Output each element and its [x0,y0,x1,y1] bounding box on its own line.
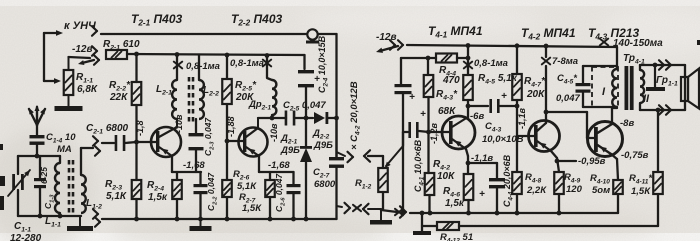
svg-text:12-280: 12-280 [10,233,42,241]
svg-text:6800: 6800 [314,179,336,190]
break x on supply rail right [600,39,608,46]
svg-text:0,047: 0,047 [556,93,580,104]
svg-text:-1,68: -1,68 [183,160,205,171]
arrow -12V pointing left [82,60,94,63]
tank bottom wire [18,215,81,217]
svg-text:0,8-1ма: 0,8-1ма [186,61,220,72]
speaker loop top wire [639,65,641,70]
diode D2-1 D9B [305,118,307,147]
arrow to volume pot R1-1 [44,80,56,82]
wire base T2-1 [137,141,157,143]
core dashed L1 [68,160,71,214]
pot wiper arrow [386,146,403,166]
collector T4-3 to transformer [611,108,613,124]
ground at tank [79,216,81,226]
resistor R2-6 5.1K [226,141,228,180]
break x 0.8-1mA T4-1 [464,62,472,69]
resistor R4-7 20K [515,43,520,48]
potentiometer R1-1 6.8K [68,57,70,70]
svg-text:6,8К: 6,8К [77,84,98,95]
resistor R2-7 1.5K [269,172,271,180]
resistor R2-1 610 [106,50,127,59]
diode D2-2 D9B [314,112,325,124]
svg-text:-1,68: -1,68 [268,160,290,171]
svg-text:-0,75в: -0,75в [621,150,649,161]
capacitor C2-5 0.047 [285,111,288,126]
node on rail R2-5 [225,53,230,58]
inductor L2-2 [198,55,200,81]
wire base T2-2 [227,140,243,142]
wire vertical from UNCh arrow [43,33,45,81]
svg-text:0,8-1ма: 0,8-1ма [230,58,264,69]
svg-text:+: + [409,92,415,103]
wire L1-2 top to C2-1 break [80,148,82,175]
svg-text:-1,8: -1,8 [135,120,145,136]
break chevrons bottom left of right half [368,208,381,210]
node on rail Dr2-1 [265,53,270,58]
resistor R4-10 5 ohm [613,180,623,194]
wire collector T2-1 to L2-1 [176,118,178,120]
svg-text:-8в: -8в [620,118,634,129]
wire R4-7 to base T4-2 [516,100,518,136]
svg-text:7-8ма: 7-8ма [552,56,578,67]
wire C2-5 to detector node [295,117,313,119]
svg-text:-10в: -10в [174,114,184,133]
resistor R4-2 10K [427,132,429,173]
arrow -12V right half [380,46,398,51]
break chevrons -12V right [390,40,395,45]
capacitor C4-2 20x12V [400,58,402,84]
pot bottom to ground [382,192,384,209]
collector node wire to detector [258,117,286,119]
output chevrons to right half lower [337,206,343,207]
svg-text:+: + [501,91,507,102]
resistor R2-2 22K [135,54,137,82]
inductor L2-1 [176,55,178,81]
capacitor C2-2 0.047 [199,172,201,184]
svg-text:МА: МА [57,144,72,155]
transformer secondary winding [640,70,644,103]
wire C4-5 across primary bottom [583,106,617,108]
svg-text:-12в: -12в [72,44,93,55]
collector column T4-1 [467,100,469,117]
wire R2-2 to base node [135,105,137,142]
chevrons on speaker bottom wire [659,105,664,110]
speaker loop right side [684,65,686,110]
node on rail L2-1 [175,52,180,57]
transistor T4-1 [442,116,475,149]
break chevrons from L1-2 to C2-1 [93,136,98,141]
shield dashed box [592,67,618,107]
bottom rail right half [410,212,618,214]
transistor T2-1 [151,127,181,157]
tank top wire [18,155,60,157]
wiper wire up [402,132,404,146]
resistor R2-3 5.1K [135,142,137,180]
wire R2-5 to base node T2-2 [226,104,228,141]
svg-text:0,8-1ма: 0,8-1ма [474,58,508,69]
svg-text:10К: 10К [437,171,455,182]
transistor T4-2 [529,121,560,152]
svg-text:120: 120 [566,184,583,195]
svg-text:22К: 22К [109,92,128,103]
resistor R4-11 1.5K [657,110,659,172]
capacitor C4-3 10x10V [489,99,492,113]
resistor R4-4 470 [436,54,457,63]
input break chevron from left half [364,150,370,156]
resistor R4-5 5.1K [463,75,473,100]
capacitor C2-1 6800 [115,135,118,151]
wire to volume pot [368,155,383,157]
transistor T2-2 [239,128,268,157]
svg-text:1,5К: 1,5К [631,186,651,197]
wire jack to right edge [318,33,337,35]
svg-text:+: + [420,109,426,120]
wire base T4-2 [517,135,534,137]
capacitor C2-6 0.047 [292,172,294,184]
volume potentiometer R1-2 [378,168,388,192]
antenna [29,109,37,125]
speaker Gr1-1 [681,77,688,101]
collector column T4-2 [545,112,547,123]
svg-text:С2-1​ 6800: С2-1​ 6800 [86,123,129,136]
ground on bottom rail [200,219,202,226]
svg-text:С2-5​ 0,047: С2-5​ 0,047 [283,100,326,113]
svg-text:-1,1в: -1,1в [517,107,527,129]
bottom rail left half [102,218,337,220]
chevrons on speaker top wire [659,60,664,65]
capacitor C4-4 20x6V [468,162,497,164]
wire C4-5 across primary top [583,65,617,67]
wire R4-3 to base T4-1 [427,97,429,132]
svg-text:-1,88: -1,88 [226,116,236,137]
emitter T4-2 [551,151,557,158]
transformer core [625,66,629,110]
node R4-4 to rail [467,46,469,71]
resistor R4-6 1.5K [464,174,474,200]
svg-text:Д9Б: Д9Б [280,145,300,156]
capacitor C2-3 0.047 [195,119,197,133]
output rail to jack (top) [101,33,307,35]
svg-text:× С4-2​ 20,0×12В: × С4-2​ 20,0×12В [349,81,362,150]
ground right half input [380,209,382,220]
svg-text:II: II [643,93,650,105]
speaker loop bottom wire [639,103,641,110]
ground on speaker top wire [654,65,656,87]
break chevron to UNCh rail [92,26,97,31]
node on rail R2-2 [134,52,139,57]
wire and break to bottom rail [381,210,397,212]
emitter wire T2-1 [171,156,173,172]
wire base T4-1 [429,131,450,133]
wire to C2-1 [102,142,114,144]
output chevrons to right half upper [337,152,346,156]
capacitor C1-4 10 MA [36,124,38,135]
svg-text:Д9Б: Д9Б [313,140,333,151]
break x 7-8mA [542,58,550,65]
emitter wire T2-2 [258,156,260,172]
break chevrons to bottom rail [93,209,98,214]
svg-text:-12в: -12в [376,32,397,43]
supply rail y54 [127,54,305,55]
svg-text:20К: 20К [526,89,545,100]
trimmer capacitor C1-3 6-25 [39,156,41,178]
svg-text:5,1К: 5,1К [106,191,127,202]
emitter T4-1 [466,149,468,156]
svg-text:6-25: 6-25 [39,167,49,184]
resistor R4-8 2.2K [516,136,518,172]
break chevrons at -12V entry [92,46,97,51]
resistor R4-3 68K [427,58,429,75]
svg-text:1,5к: 1,5к [148,192,168,203]
svg-text:1,5к: 1,5к [445,198,465,209]
resistor R4-9 120 [554,172,564,194]
svg-text:5,1К: 5,1К [237,181,257,192]
svg-text:2,2К: 2,2К [526,185,547,196]
inductor L1-2 [81,175,86,213]
supply rail right half [407,45,617,47]
svg-text:1,5К: 1,5К [242,203,262,214]
svg-text:-10в: -10в [269,123,279,142]
resistor R2-4 1.5K [176,172,178,180]
svg-text:5ом: 5ом [592,185,610,196]
variable capacitor C1-1 12-280 [17,156,19,174]
wire -12V feed [69,57,91,58]
svg-text:140-150ма: 140-150ма [613,38,663,49]
wire T4-2 collector to T4-3 base [546,111,587,113]
wire emitter to -0.95v [557,160,576,162]
svg-text:+: + [479,189,485,200]
resistor R2-5 20K [226,55,228,79]
emitter T4-3 [611,154,617,159]
core dashed L2 [188,77,191,122]
jack terminal circle [307,29,317,39]
svg-text:R2-1​ 610: R2-1​ 610 [103,39,140,52]
choke Dr2-1 [267,56,272,81]
break x 0.8-1mA stage1 [174,62,182,69]
inductor L1-1 [59,156,61,163]
wire C2-1 to base node [125,142,137,143]
svg-text:-6в: -6в [470,111,484,122]
edge smudges [0,176,5,186]
svg-text:470: 470 [442,75,460,86]
transistor T4-3 [588,122,623,157]
capacitor C4-5 0.047 [582,66,584,83]
capacitor C4-1 10x6V [403,131,408,133]
svg-text:-1,2в: -1,2в [429,122,439,144]
feedback line with R4-12 51 [421,213,423,231]
wire to UNCh with arrow [44,32,59,34]
capacitor C2-7 6800 [335,118,337,157]
collector node C4-3 [466,104,471,109]
ground under R1-1 [68,95,70,106]
transformer primary winding [616,47,618,69]
capacitor C2-4 10x15V [298,70,314,73]
wire to decoupling node [401,57,436,59]
